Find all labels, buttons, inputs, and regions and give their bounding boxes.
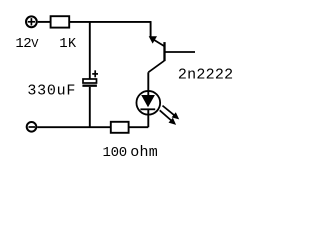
svg-text:ohm: ohm [130,144,158,161]
svg-text:1K: 1K [59,36,77,52]
svg-text:2n2222: 2n2222 [178,66,234,83]
svg-text:100: 100 [103,145,127,161]
svg-text:330uF: 330uF [27,83,76,100]
svg-text:12V: 12V [15,36,39,52]
